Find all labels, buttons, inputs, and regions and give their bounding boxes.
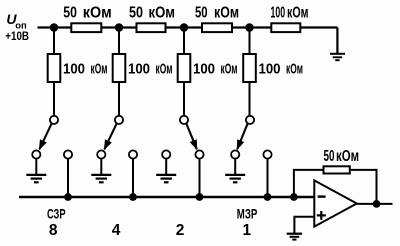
svg-text:кОм: кОм — [156, 60, 173, 77]
wire noninverting input drop to ground — [293, 216, 295, 233]
svg-text:кОм: кОм — [83, 4, 112, 21]
label СЗР (MSB) — [47, 206, 66, 222]
switch S3 ground-side contact — [162, 150, 170, 158]
svg-text:50: 50 — [129, 4, 143, 21]
svg-text:кОм: кОм — [286, 60, 303, 77]
svg-text:2: 2 — [176, 222, 185, 239]
svg-text:100: 100 — [193, 60, 215, 77]
svg-text:4: 4 — [112, 222, 121, 239]
ground under S1 — [26, 175, 46, 182]
resistor R9 50кОм (feedback) — [324, 148, 360, 174]
wire node1 down to R5 — [53, 28, 55, 55]
node dot 2 on top rail — [115, 23, 124, 32]
svg-text:СЗР: СЗР — [47, 206, 66, 222]
wire op-amp noninverting input — [294, 216, 314, 218]
wire node3 down to R7 — [183, 28, 185, 55]
wire R8 to switch S4 — [249, 82, 251, 116]
svg-text:кОм: кОм — [287, 4, 309, 21]
wire top-right corner drop to ground — [336, 28, 338, 54]
wire S3 bus contact down to summing bus — [199, 159, 201, 197]
wire S4 bus contact down to summing bus — [267, 159, 269, 197]
wire node4 down to R8 — [249, 28, 251, 55]
svg-text:50: 50 — [324, 148, 335, 165]
wire S1 bus contact down to summing bus — [67, 159, 69, 197]
wire S3 ground contact to ground — [165, 159, 167, 174]
junction dot bus bit2 — [196, 193, 204, 201]
node dot 1 on top rail — [50, 23, 59, 32]
junction dot bus bit4 — [129, 193, 137, 201]
svg-text:100: 100 — [259, 60, 281, 77]
node dot 4 on top rail — [245, 23, 254, 32]
svg-text:100: 100 — [271, 4, 286, 21]
label bit weight 1 — [242, 222, 251, 239]
svg-text:100: 100 — [128, 60, 150, 77]
svg-text:кОм: кОм — [149, 4, 176, 21]
label МЗР (LSB) — [237, 206, 257, 222]
op-amp U1 — [314, 180, 357, 226]
switch S4 bus-side contact — [263, 150, 271, 158]
switch S4 ground-side contact — [231, 150, 239, 158]
svg-text:МЗР: МЗР — [237, 206, 257, 222]
wire S2 ground contact to ground — [100, 159, 102, 174]
wire R7 to switch S3 — [183, 82, 185, 116]
svg-text:+10В: +10В — [5, 29, 29, 43]
wire feedback riser from bus tap — [293, 170, 295, 197]
node Uref label "Uоп +10В" — [5, 11, 29, 43]
svg-text:кОм: кОм — [221, 60, 238, 77]
svg-text:50: 50 — [195, 4, 208, 21]
resistor R4 100 кОм (horizontal) — [271, 4, 309, 32]
ground under S3 — [156, 175, 176, 182]
switch S3 bus-side contact — [195, 150, 203, 158]
junction dot bus bit1 — [264, 193, 272, 201]
wire R5 to switch S1 — [53, 82, 55, 116]
resistor R6 100 кОм (vertical, bit 4) — [113, 54, 173, 82]
wire S1 ground contact to ground — [35, 159, 37, 174]
resistor R8 100 кОм (vertical, bit 1) — [243, 54, 303, 82]
ground top-right — [330, 54, 345, 60]
wire feedback top-right segment — [350, 169, 378, 171]
ground under S2 — [91, 175, 111, 182]
resistor R7 100 кОм (vertical, bit 2) — [178, 54, 238, 82]
switch S1 bus-side contact — [64, 150, 72, 158]
resistor R5 100 кОм (vertical, bit 8) — [48, 54, 108, 82]
wire top rail from Uref input to right corner — [38, 26, 338, 28]
svg-text:50: 50 — [63, 4, 77, 21]
wire S4 ground contact to ground — [234, 159, 236, 174]
resistor R3 50 кОм (horizontal) — [195, 4, 239, 32]
switch S2 ground-side contact — [97, 150, 105, 158]
wire op-amp output — [357, 203, 393, 205]
switch S4 wiper arrow to ground contact — [237, 123, 248, 149]
label bit weight 8 — [49, 222, 58, 239]
switch S2 (bit 4) pole — [115, 116, 123, 124]
resistor R1 50 кОм (horizontal) — [63, 4, 112, 32]
node dot 3 on top rail — [180, 23, 189, 32]
ground at op-amp noninverting input — [287, 234, 302, 240]
switch S3 wiper arrow to bus contact — [186, 123, 197, 149]
resistor R2 50 кОм (horizontal) — [129, 4, 175, 32]
wire node2 down to R6 — [118, 28, 120, 55]
svg-text:кОм: кОм — [91, 60, 108, 77]
switch S1 ground-side contact — [32, 150, 40, 158]
svg-text:кОм: кОм — [214, 4, 239, 21]
svg-text:8: 8 — [49, 222, 58, 239]
wire S2 bus contact down to summing bus — [132, 159, 134, 197]
label bit weight 2 — [176, 222, 185, 239]
junction dot bus bit8 — [64, 193, 72, 201]
label bit weight 4 — [112, 222, 121, 239]
wire R6 to switch S2 — [118, 82, 120, 116]
wire feedback top-left segment — [293, 169, 324, 171]
switch S2 bus-side contact — [129, 150, 137, 158]
svg-text:кОм: кОм — [336, 148, 359, 165]
wire summing bus — [19, 196, 315, 198]
junction dot output/feedback — [373, 200, 381, 208]
switch S1 (bit 8) pole — [50, 116, 58, 124]
svg-text:1: 1 — [242, 222, 251, 239]
switch S2 wiper arrow to ground contact — [104, 123, 116, 149]
wire feedback drop to output node — [376, 169, 378, 204]
svg-text:100: 100 — [63, 60, 85, 77]
switch S4 (bit 1) pole — [246, 116, 254, 124]
switch S1 wiper arrow to ground contact — [39, 123, 51, 149]
switch S3 (bit 2) pole — [180, 116, 188, 124]
ground under S4 — [225, 175, 245, 182]
junction dot bus feedback tap — [290, 193, 298, 201]
